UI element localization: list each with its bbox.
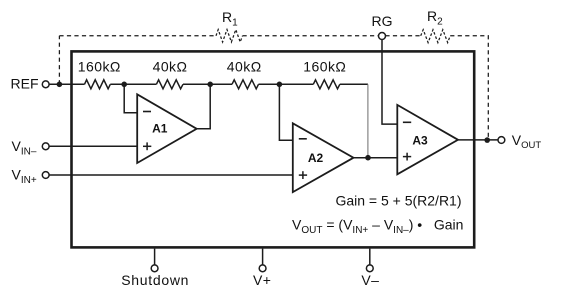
wire dashed RG left segment xyxy=(243,35,379,37)
wire VIN+ to A2 non-inverting input xyxy=(49,174,292,176)
terminal RG xyxy=(379,33,386,40)
node VOUT junction xyxy=(484,137,490,143)
wire A1 inverting input feed xyxy=(124,84,137,112)
wire between 40k and 160k xyxy=(259,83,314,85)
resistor 40k (A2 input) xyxy=(232,80,259,89)
resistor 40k (A1 feedback) xyxy=(156,80,183,89)
resistor 160k (input, REF side) xyxy=(85,80,111,89)
svg-text:R2: R2 xyxy=(427,8,443,28)
svg-text:VIN–: VIN– xyxy=(12,138,37,158)
IC package outline xyxy=(72,51,475,247)
op-amp A3 xyxy=(397,105,458,174)
svg-text:160kΩ: 160kΩ xyxy=(303,59,346,75)
wire between 160k and 40k xyxy=(110,83,156,85)
terminal V+ xyxy=(259,265,266,272)
wire dashed top left segment xyxy=(59,35,216,37)
svg-text:160kΩ: 160kΩ xyxy=(78,59,121,75)
wire dashed left leg REF node up xyxy=(58,36,60,85)
node REF junction xyxy=(57,82,63,88)
resistor 160k (A2 feedback) xyxy=(313,80,340,89)
terminal REF xyxy=(42,81,49,88)
wire feedback drop to A2 output xyxy=(367,84,369,157)
svg-text:RG: RG xyxy=(372,13,393,29)
svg-text:A2: A2 xyxy=(308,151,324,165)
wire A1 output up to node xyxy=(197,84,211,129)
wire V- stub xyxy=(369,249,371,265)
svg-text:40kΩ: 40kΩ xyxy=(153,59,188,75)
svg-text:40kΩ: 40kΩ xyxy=(227,59,262,75)
wire dashed top right segment and right leg xyxy=(450,36,488,140)
svg-text:Shutdown: Shutdown xyxy=(121,272,189,288)
node A1 inverting input xyxy=(121,82,127,88)
wire A3 output to VOUT terminal xyxy=(458,139,498,141)
svg-text:REF: REF xyxy=(11,76,39,92)
svg-text:V–: V– xyxy=(361,272,379,288)
node A2 output xyxy=(365,155,371,161)
resistor R2 (external, dashed) xyxy=(421,30,451,43)
terminal Shutdown xyxy=(151,265,158,272)
wire VIN- to A1 non-inverting input xyxy=(49,145,137,147)
terminal VIN- xyxy=(42,143,49,150)
wire REF input row into first resistor xyxy=(49,83,84,85)
svg-text:A3: A3 xyxy=(412,133,428,147)
wire shutdown stub xyxy=(154,249,156,265)
node A1 output xyxy=(207,82,213,88)
svg-text:R1: R1 xyxy=(222,9,238,29)
wire V+ stub xyxy=(262,249,264,265)
wire A2 inverting input feed xyxy=(279,84,292,140)
op-amp A1 xyxy=(137,94,197,163)
svg-text:V+: V+ xyxy=(253,272,272,288)
wire between first 40k and second 40k xyxy=(183,83,232,85)
resistor R1 (external, dashed) xyxy=(216,30,243,42)
svg-text:VOUT = (VIN+ – VIN–) • Gain: VOUT = (VIN+ – VIN–) • Gain xyxy=(292,217,463,237)
svg-text:Gain = 5 + 5(R2/R1): Gain = 5 + 5(R2/R1) xyxy=(335,193,461,209)
op-amp A2 xyxy=(293,123,354,192)
svg-text:VIN+: VIN+ xyxy=(12,167,37,187)
terminal VOUT xyxy=(498,137,505,144)
wire RG pin down to A3 inverting input xyxy=(382,40,397,125)
svg-text:VOUT: VOUT xyxy=(512,132,542,151)
wire A2 output to A3 non-inverting input xyxy=(354,157,398,159)
wire 160k right end to feedback drop xyxy=(340,83,368,85)
terminal VIN+ xyxy=(42,172,49,179)
node A2 inverting input xyxy=(277,82,283,88)
external gain network (dashed) xyxy=(59,30,488,141)
terminal V- xyxy=(366,265,373,272)
wire dashed RG right segment xyxy=(385,35,421,37)
svg-text:A1: A1 xyxy=(152,121,168,135)
